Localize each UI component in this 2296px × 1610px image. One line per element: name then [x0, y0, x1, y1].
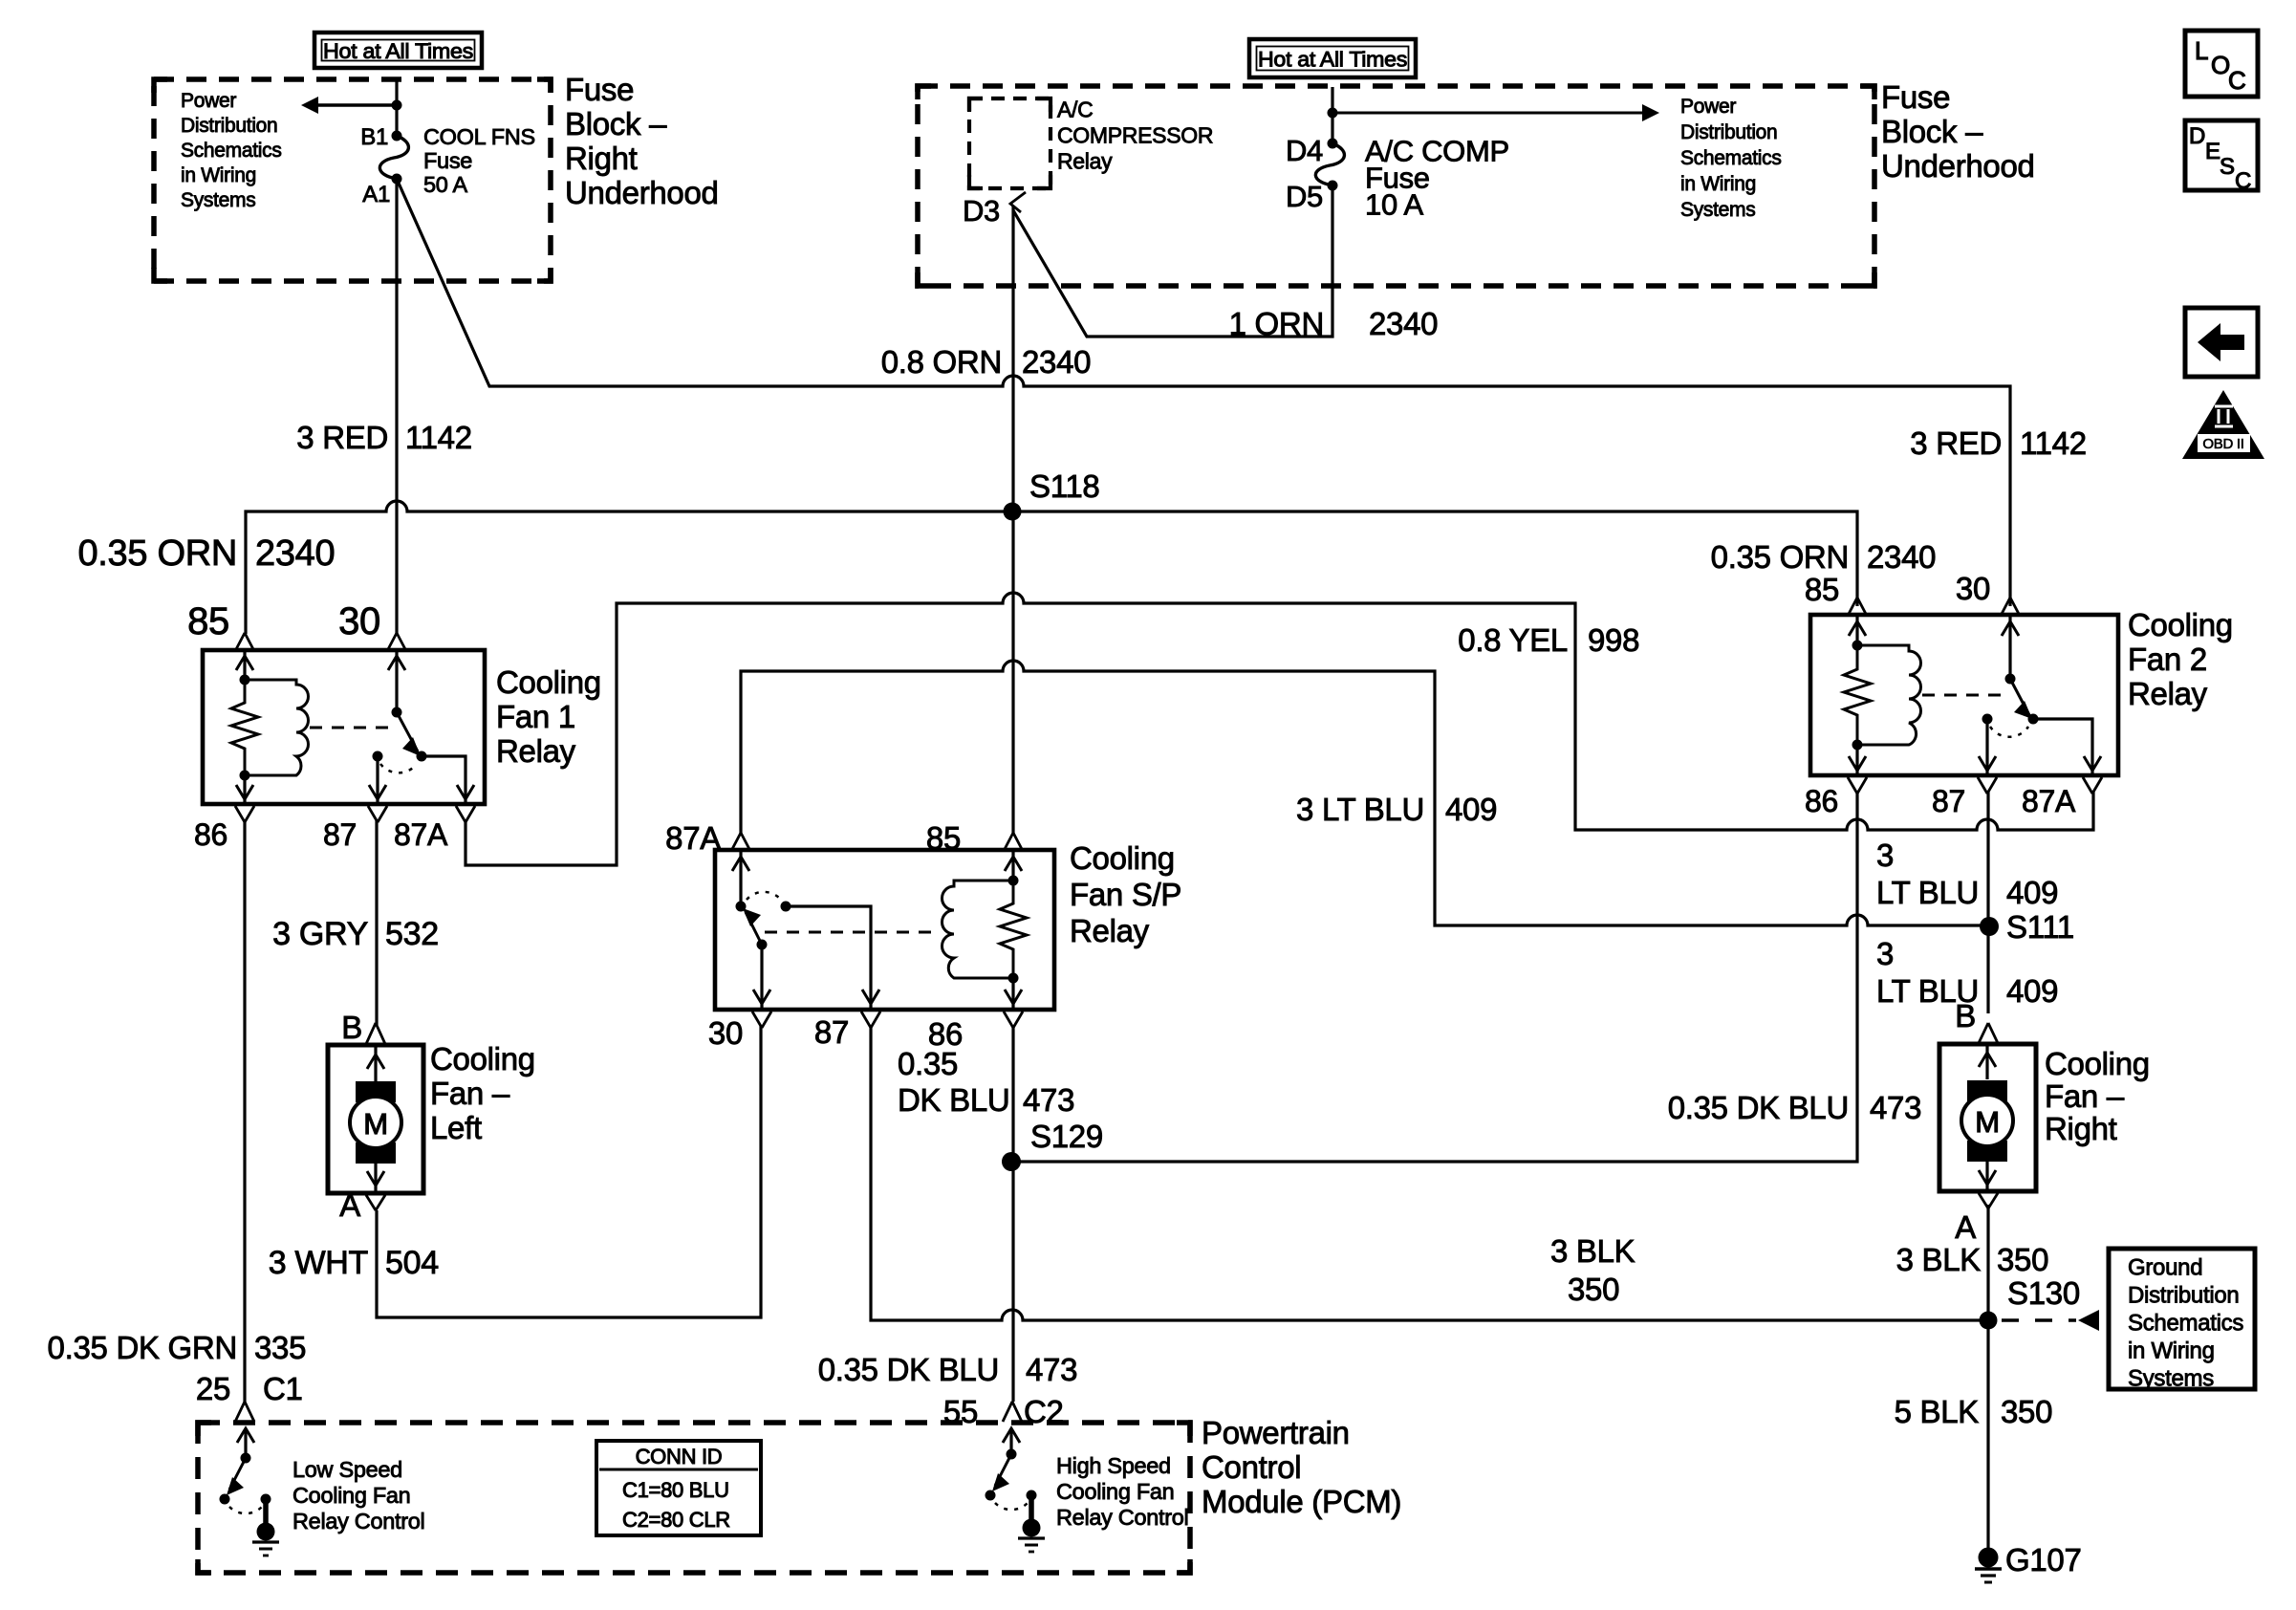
svg-text:S130: S130 [2007, 1275, 2080, 1311]
relay: Cooling Fan 2 Relay box [1810, 615, 2118, 775]
wire: 0.35 DK BLU 473 S/P-86 down to PCM C2 [1011, 1026, 1014, 1402]
svg-text:3 LT BLU: 3 LT BLU [1296, 792, 1424, 827]
svg-text:473: 473 [1026, 1352, 1077, 1387]
icon: back-arrow box [2185, 308, 2258, 377]
node: junction at D4 feed [1328, 108, 1338, 119]
svg-text:CONN ID: CONN ID [636, 1445, 723, 1469]
svg-text:High Speed: High Speed [1056, 1453, 1171, 1478]
svg-text:M: M [363, 1107, 388, 1141]
wire: 3 BLK 350 S/P-87 to S130 [871, 1026, 1988, 1320]
svg-text:LT BLU: LT BLU [1876, 875, 1979, 910]
svg-text:Relay Control: Relay Control [292, 1509, 424, 1534]
icon: DESC box [2185, 120, 2258, 190]
svg-text:86: 86 [194, 817, 227, 852]
node S129 splice dot [1002, 1152, 1021, 1171]
svg-text:3: 3 [1876, 838, 1894, 873]
svg-text:409: 409 [2006, 973, 2058, 1009]
S/P relay contact 30 [757, 940, 768, 950]
fan2 relay coil [1857, 645, 1920, 745]
svg-text:Power: Power [181, 90, 236, 112]
svg-text:Relay: Relay [496, 733, 576, 769]
svg-text:Fuse: Fuse [1881, 79, 1950, 115]
svg-text:Module (PCM): Module (PCM) [1202, 1484, 1401, 1519]
svg-text:0.35: 0.35 [898, 1046, 958, 1081]
wire: 0.35 ORN 2340 from S118 down to fan S/P relay 85 [1011, 511, 1014, 834]
fan1 relay actuation dashed link [310, 727, 396, 729]
wire: 3 RED 1142 from fuse A1 down to fan1 relay 30 [395, 179, 398, 634]
fan2 pin 86 connector [1848, 777, 1867, 794]
fan left motor lead wires [374, 1046, 377, 1081]
arrow to power distribution (right) [1332, 112, 1642, 115]
svg-text:Fan 1: Fan 1 [496, 699, 575, 734]
svg-text:504: 504 [385, 1245, 439, 1281]
S/P pin 30 connector [752, 1012, 771, 1028]
wire: 3 GRY 532 fan1-87 to cooling fan left B [375, 820, 378, 1025]
A/C compressor relay dashed box [969, 98, 1051, 188]
S/P pin 85 connector [1004, 833, 1023, 851]
svg-text:Right: Right [565, 141, 638, 176]
svg-text:0.35 DK BLU: 0.35 DK BLU [1668, 1090, 1849, 1125]
svg-text:Hot at All Times: Hot at All Times [1258, 48, 1407, 72]
label box: Hot at All Times (left) [314, 33, 482, 68]
svg-text:86: 86 [1805, 784, 1838, 818]
svg-text:S129: S129 [1030, 1119, 1103, 1154]
svg-text:B: B [341, 1010, 362, 1045]
fan1 pin 30 connector [387, 633, 406, 651]
relay: Cooling Fan 1 Relay box [203, 650, 485, 804]
fan2 relay switch arm [2010, 679, 2029, 715]
note box: Ground Distribution Schematics in Wiring Systems [2109, 1249, 2255, 1389]
fan right motor armature circle M [1961, 1095, 2013, 1146]
svg-text:Relay: Relay [2128, 676, 2208, 711]
svg-text:Fan –: Fan – [430, 1076, 510, 1111]
svg-text:350: 350 [1997, 1242, 2048, 1277]
fan2 relay resistor [1844, 645, 1871, 745]
svg-text:85: 85 [926, 820, 961, 856]
svg-text:350: 350 [1568, 1272, 1619, 1307]
svg-text:Powertrain: Powertrain [1202, 1415, 1350, 1450]
svg-text:1 ORN: 1 ORN [1229, 306, 1324, 341]
svg-text:Schematics: Schematics [181, 140, 282, 162]
svg-text:Low Speed: Low Speed [292, 1457, 402, 1482]
svg-text:O: O [2211, 51, 2230, 79]
fan1 relay coil branch wire [243, 651, 246, 680]
svg-text:D4: D4 [1286, 134, 1323, 167]
svg-text:S118: S118 [1029, 468, 1099, 504]
svg-text:Schematics: Schematics [2128, 1310, 2243, 1336]
fan right pin B connector [1979, 1023, 1998, 1043]
svg-text:10 A: 10 A [1365, 187, 1423, 221]
relay: Cooling Fan S/P Relay box [715, 850, 1054, 1010]
svg-text:Control: Control [1202, 1449, 1301, 1485]
fan2 pin 30 connector [2001, 598, 2020, 616]
fuse COOL FNS 50A element [379, 136, 408, 179]
svg-text:C: C [2228, 66, 2245, 95]
PCM low speed relay control switch [244, 1430, 247, 1458]
fan1 pin 87A connector [456, 806, 475, 822]
fan1 pin 85 connector [235, 633, 254, 651]
fuse COOL FNS 50A - terminal A1 [392, 174, 402, 185]
svg-text:D: D [2189, 123, 2205, 149]
svg-text:Cooling Fan: Cooling Fan [292, 1483, 410, 1508]
node: junction at B1 feed [392, 100, 402, 111]
fan1 relay switch arm [397, 712, 418, 751]
svg-text:Fuse: Fuse [565, 72, 634, 107]
motor: Cooling Fan - Right box [1939, 1044, 2036, 1191]
svg-text:0.35 ORN: 0.35 ORN [1711, 539, 1849, 575]
svg-text:Underhood: Underhood [1881, 148, 2035, 184]
svg-text:87: 87 [1932, 784, 1965, 818]
svg-text:30: 30 [1956, 571, 1990, 606]
svg-text:473: 473 [1023, 1082, 1074, 1118]
svg-text:87: 87 [814, 1014, 849, 1050]
svg-text:C2=80 CLR: C2=80 CLR [622, 1508, 730, 1532]
PCM high speed relay control switch [1009, 1430, 1012, 1454]
svg-text:Fan S/P: Fan S/P [1070, 877, 1181, 912]
svg-text:473: 473 [1870, 1090, 1921, 1125]
wire: 3 WHT 504 cooling fan left A to S/P-30 [377, 1026, 761, 1317]
svg-text:0.8 ORN: 0.8 ORN [881, 344, 1002, 380]
svg-text:5 BLK: 5 BLK [1895, 1394, 1980, 1429]
svg-text:Cooling: Cooling [2128, 607, 2233, 642]
fan2 relay contact 87 [1982, 714, 1993, 725]
svg-text:Cooling: Cooling [496, 664, 601, 700]
wire: feed from Hot at All Times (right) [1331, 87, 1333, 143]
svg-text:85: 85 [1805, 572, 1839, 607]
fan left pin B connector [366, 1023, 385, 1044]
svg-text:335: 335 [254, 1330, 306, 1365]
svg-text:OBD II: OBD II [2202, 436, 2243, 452]
svg-text:85: 85 [187, 600, 229, 642]
svg-text:3: 3 [1876, 936, 1894, 971]
wire: 3 LT BLU 409 S/P-87A to S111 [741, 661, 1989, 925]
svg-text:Relay: Relay [1070, 913, 1150, 948]
svg-text:3 RED: 3 RED [1910, 425, 2002, 461]
svg-text:in Wiring: in Wiring [1680, 173, 1756, 195]
svg-text:Ground: Ground [2128, 1254, 2202, 1280]
S/P relay throw dashed arc (to fixed contact) [747, 892, 781, 900]
fuse A/C COMP 10A - terminal D4 [1328, 139, 1338, 149]
svg-text:2340: 2340 [1369, 306, 1438, 341]
icon: OBD II triangle [2182, 390, 2264, 459]
svg-text:Relay Control: Relay Control [1056, 1505, 1188, 1530]
svg-text:Fuse: Fuse [423, 148, 472, 173]
fan2 relay switch common 30 [2008, 616, 2011, 679]
svg-text:3 WHT: 3 WHT [269, 1245, 368, 1281]
svg-text:25: 25 [196, 1371, 230, 1406]
svg-text:E: E [2205, 139, 2220, 164]
pin D3 connector [1010, 192, 1026, 212]
svg-text:Cooling: Cooling [1070, 840, 1175, 876]
svg-text:3 BLK: 3 BLK [1550, 1233, 1635, 1269]
svg-text:87A: 87A [2022, 784, 2076, 818]
fan2 relay actuation dashed link [1922, 694, 2007, 697]
svg-text:in Wiring: in Wiring [2128, 1338, 2215, 1363]
svg-text:A: A [1955, 1209, 1976, 1245]
svg-text:409: 409 [1445, 792, 1497, 827]
svg-text:S: S [2220, 154, 2235, 180]
fan1 relay coil [245, 680, 309, 775]
node S118 splice dot [1004, 503, 1022, 521]
svg-text:50 A: 50 A [423, 172, 467, 197]
wire: 3 LT BLU 409 fan2-87 down to cooling fan right B [1986, 792, 1989, 1013]
fan1 pin 86 connector [235, 806, 254, 822]
wire: D3 down to S118 (0.8 ORN 2340) [1011, 206, 1014, 511]
wire: D3 diagonal to A/C COMP fuse D5 (1 ORN 2340) [1013, 185, 1332, 337]
wire: 5 BLK 350 S130 to G107 [1986, 1320, 1989, 1549]
fan left motor brushes [356, 1081, 396, 1102]
module: Powertrain Control Module dashed box [198, 1423, 1190, 1573]
PCM pin C2 connector [1003, 1402, 1022, 1422]
ground G107 symbol [1979, 1548, 1999, 1568]
svg-text:B: B [1955, 998, 1976, 1033]
svg-text:87A: 87A [394, 817, 448, 852]
fan1 pin 87 connector [368, 806, 387, 822]
svg-text:Distribution: Distribution [1680, 121, 1777, 143]
svg-text:Systems: Systems [2128, 1365, 2214, 1391]
wire: 0.35 DK GRN 335 fan1-86 down to PCM C1 [243, 820, 246, 1402]
svg-text:Distribution: Distribution [181, 115, 277, 137]
wire: feed from Hot at All Times into fuse block [395, 79, 398, 136]
S/P pin 87A connector [731, 833, 750, 851]
svg-text:Fan 2: Fan 2 [2128, 642, 2207, 677]
svg-text:0.35 ORN: 0.35 ORN [77, 533, 237, 574]
svg-text:D5: D5 [1286, 180, 1323, 213]
fan right motor lead wires [1985, 1045, 1988, 1079]
wire: 0.8 YEL 998 fan1-87A to fan2-87A [466, 593, 2093, 865]
svg-text:A1: A1 [362, 182, 390, 207]
fan left pin A connector [366, 1195, 385, 1210]
svg-text:998: 998 [1588, 622, 1639, 658]
fan1 relay switch common 30 [395, 651, 398, 712]
svg-text:0.35 DK BLU: 0.35 DK BLU [818, 1352, 999, 1387]
svg-text:0.35 DK GRN: 0.35 DK GRN [48, 1330, 237, 1365]
svg-text:Cooling: Cooling [2045, 1046, 2150, 1081]
svg-text:A/C: A/C [1057, 98, 1093, 122]
fan right motor brushes [1967, 1080, 2007, 1101]
svg-text:Distribution: Distribution [2128, 1282, 2239, 1308]
fan2 pin 85 connector [1848, 598, 1867, 616]
arrow to power distribution (left) [318, 103, 397, 106]
svg-text:Schematics: Schematics [1680, 147, 1782, 169]
S/P relay coil [942, 881, 1013, 978]
label box: Hot at All Times (right) [1249, 39, 1416, 77]
svg-text:C: C [2235, 168, 2251, 194]
svg-text:Block –: Block – [565, 106, 667, 141]
fan2 pin 87A connector [2083, 777, 2102, 794]
fuse A/C COMP 10A element [1315, 143, 1344, 185]
svg-text:409: 409 [2006, 875, 2058, 910]
icon: LOC box [2185, 31, 2258, 97]
svg-text:A: A [339, 1187, 360, 1223]
fan right pin A connector [1979, 1193, 1998, 1208]
svg-text:350: 350 [2001, 1394, 2052, 1429]
table: CONN ID [596, 1441, 761, 1535]
PCM low speed internal ground [263, 1499, 269, 1525]
node S111 splice dot [1980, 917, 1999, 936]
svg-text:L: L [2195, 36, 2208, 65]
fuse block - underhood dashed box [918, 86, 1874, 286]
svg-text:Cooling: Cooling [430, 1041, 535, 1077]
motor: Cooling Fan - Left box [328, 1045, 423, 1193]
fan1 relay contact 87 [373, 751, 383, 762]
S/P relay switch common wire 87A [739, 851, 742, 906]
fuse COOL FNS 50A - terminal B1 [392, 131, 402, 141]
svg-text:87: 87 [323, 817, 357, 852]
svg-text:Block –: Block – [1881, 114, 1983, 149]
svg-text:M: M [1975, 1105, 2000, 1139]
node S130 splice dot [1980, 1312, 1998, 1330]
fan2 relay contact 87A [2028, 714, 2039, 725]
fan2 pin 87 connector [1978, 777, 1997, 794]
svg-text:Underhood: Underhood [565, 175, 719, 210]
svg-text:COMPRESSOR: COMPRESSOR [1057, 123, 1213, 148]
svg-text:G107: G107 [2005, 1542, 2082, 1577]
fuse block - right underhood dashed box [154, 79, 551, 281]
svg-text:D3: D3 [963, 194, 1000, 228]
svg-text:2340: 2340 [1022, 344, 1091, 380]
svg-text:3 RED: 3 RED [296, 420, 388, 455]
S/P relay actuation dashed link [765, 931, 940, 934]
svg-text:Fan –: Fan – [2045, 1078, 2125, 1114]
svg-text:1142: 1142 [2020, 425, 2087, 461]
svg-text:3 GRY: 3 GRY [272, 916, 368, 952]
svg-text:C1: C1 [263, 1371, 303, 1406]
svg-text:S111: S111 [2006, 909, 2074, 945]
svg-text:Systems: Systems [1680, 199, 1755, 221]
S/P pin 86 connector [1004, 1012, 1023, 1028]
svg-text:Power: Power [1680, 96, 1736, 118]
svg-text:C1=80 BLU: C1=80 BLU [622, 1478, 729, 1502]
S/P relay fixed contact to 87 [781, 902, 791, 912]
svg-text:Relay: Relay [1057, 149, 1113, 174]
svg-text:B1: B1 [360, 124, 388, 150]
svg-text:Systems: Systems [181, 189, 255, 211]
svg-text:3 BLK: 3 BLK [1896, 1242, 1982, 1277]
S/P relay coil wire 85-86 [1011, 851, 1014, 881]
svg-text:0.8 YEL: 0.8 YEL [1458, 622, 1568, 658]
PCM pin C1 connector [235, 1402, 254, 1422]
fan1 relay throw dashed arc [380, 764, 417, 772]
fan2 relay throw dashed arc [1990, 727, 2028, 737]
wire: 3 BLK 350 fan right A to S130 [1986, 1205, 1989, 1320]
S/P relay switch arm [746, 912, 762, 945]
wire: 0.35 ORN 2340 bus from S118 to both fan relay coils [246, 501, 1857, 634]
fan2 relay coil branch wire [1855, 616, 1858, 645]
wire: 0.35 DK BLU 473 S129 to fan2-86 [1011, 792, 1857, 1162]
svg-text:2340: 2340 [255, 533, 335, 574]
svg-text:Cooling Fan: Cooling Fan [1056, 1479, 1174, 1504]
svg-text:Right: Right [2045, 1111, 2117, 1146]
svg-text:COOL FNS: COOL FNS [423, 124, 535, 149]
fan1 relay contact 87A [417, 751, 427, 762]
svg-text:2340: 2340 [1867, 539, 1936, 575]
svg-text:1142: 1142 [405, 420, 472, 455]
svg-text:30: 30 [708, 1015, 743, 1051]
svg-text:Hot at All Times: Hot at All Times [323, 39, 473, 63]
svg-text:DK BLU: DK BLU [898, 1082, 1009, 1118]
svg-text:Left: Left [430, 1110, 482, 1145]
dashed reference link to ground distribution [2002, 1318, 2076, 1321]
fuse A/C COMP 10A - terminal D5 [1328, 181, 1338, 191]
svg-text:532: 532 [385, 916, 439, 952]
PCM high speed internal ground [1029, 1495, 1034, 1521]
fan1 relay resistor [231, 680, 258, 775]
svg-text:in Wiring: in Wiring [181, 164, 256, 186]
fan left motor armature circle M [350, 1097, 401, 1148]
S/P relay resistor [1000, 881, 1027, 978]
S/P pin 87 connector [861, 1012, 880, 1028]
wire: 3 RED 1142 branch A1 diagonal to right feed [397, 179, 2010, 606]
svg-text:87A: 87A [665, 820, 721, 856]
svg-text:30: 30 [338, 600, 380, 642]
